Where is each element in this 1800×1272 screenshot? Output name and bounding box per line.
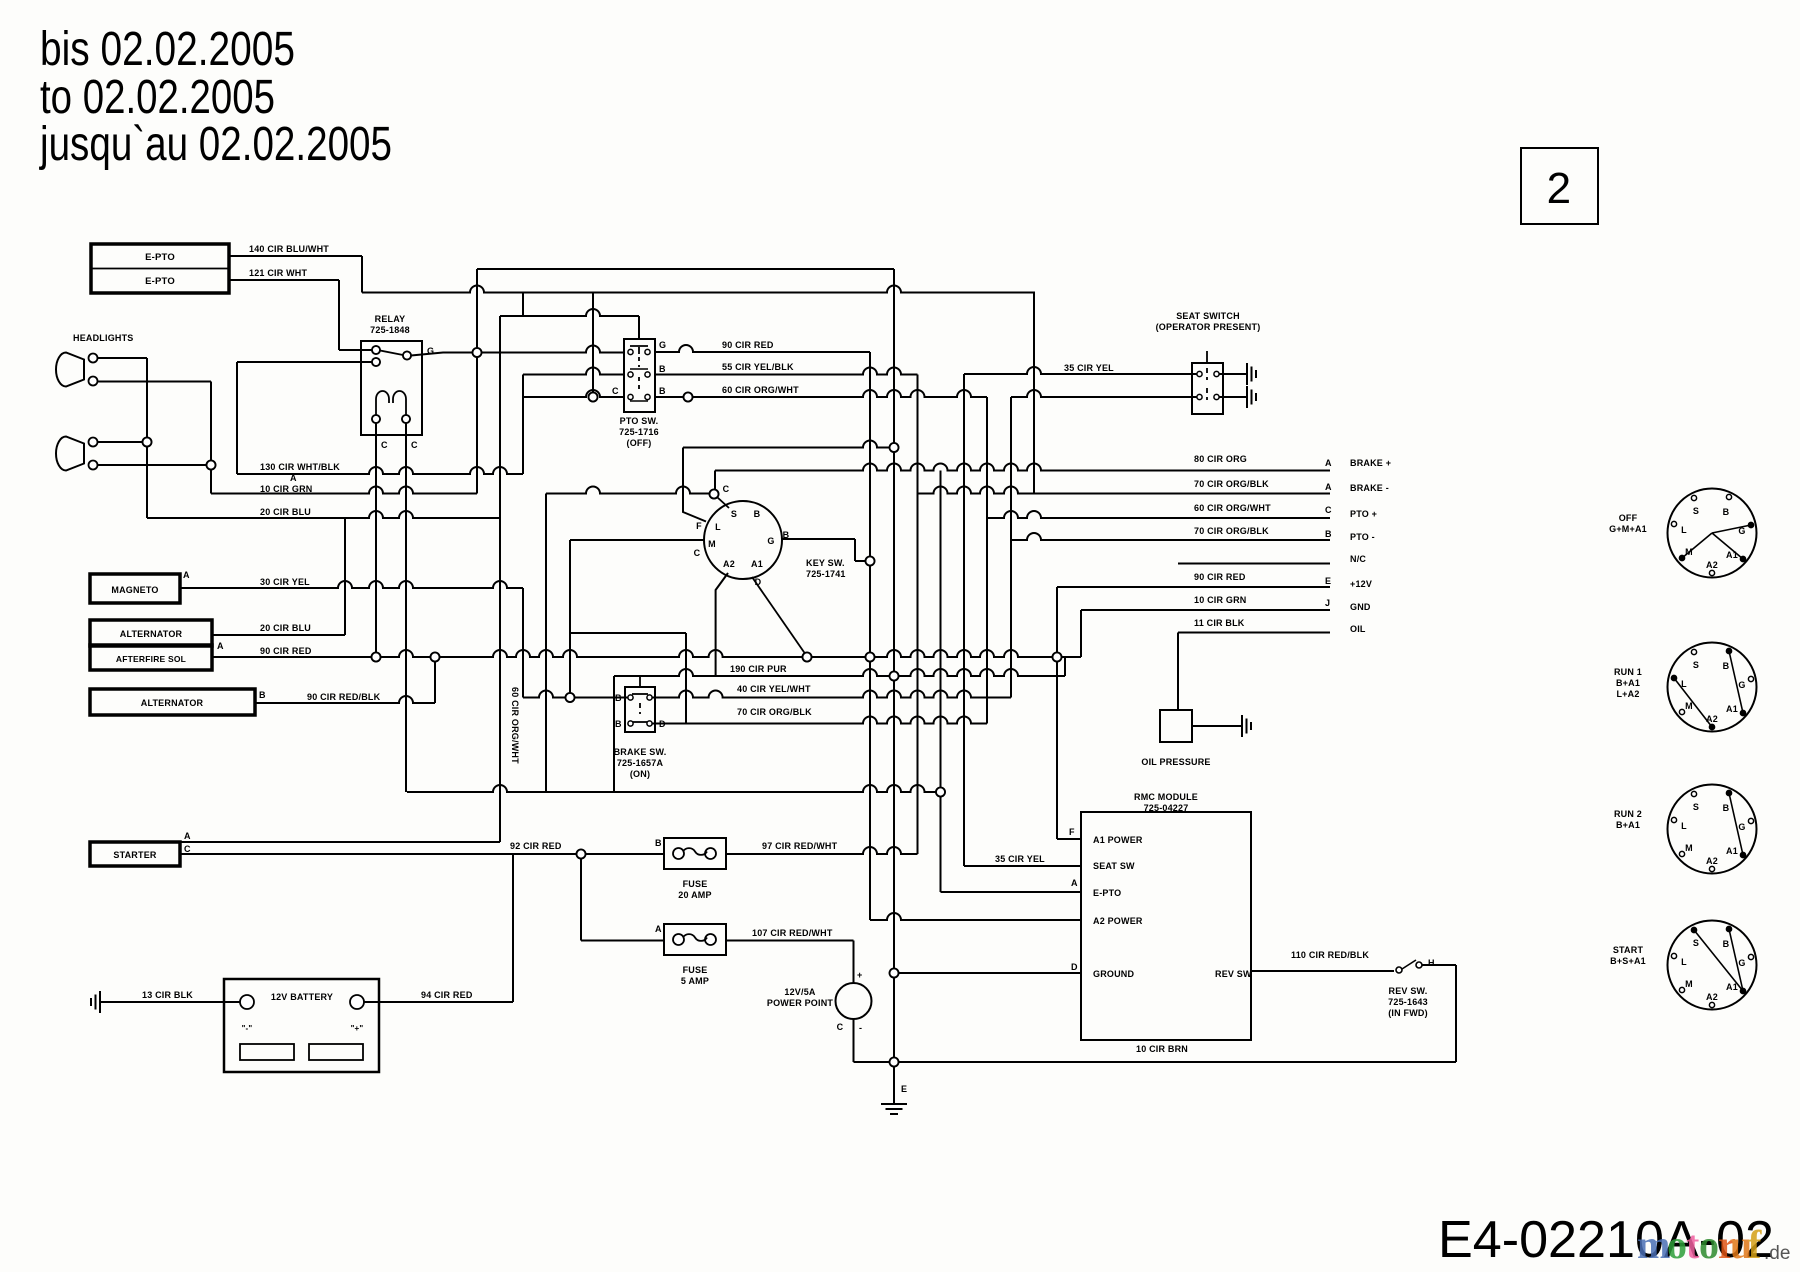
- svg-text:725-1657A: 725-1657A: [617, 758, 664, 768]
- svg-text:20 AMP: 20 AMP: [678, 890, 711, 900]
- svg-text:A1: A1: [1726, 704, 1738, 714]
- svg-text:A1 POWER: A1 POWER: [1093, 835, 1143, 845]
- wire V686: [685, 633, 687, 724]
- node pto C left: [589, 393, 598, 402]
- svg-text:B: B: [259, 690, 266, 700]
- wire 40 CIR YEL/WHT row: [652, 691, 1011, 698]
- svg-text:B: B: [659, 386, 666, 396]
- relay pin 1: [372, 346, 380, 354]
- wire V593: [592, 293, 594, 398]
- wire 121 CIR WHT seg1: [230, 279, 339, 281]
- key switch D lead: [752, 577, 806, 655]
- svg-text:A: A: [1071, 878, 1078, 888]
- node fuse5 tap: [577, 850, 586, 859]
- node row792/V940: [936, 788, 945, 797]
- wire V513: [512, 854, 514, 1002]
- svg-text:START: START: [1613, 945, 1644, 955]
- wire 20 CIR BLU upper: [147, 511, 500, 518]
- wire 107 CIR RED/WHT row: [726, 940, 854, 942]
- wire row 792: [407, 785, 941, 792]
- node key D: [803, 653, 812, 662]
- svg-text:B: B: [655, 838, 662, 848]
- relay contact G: [403, 352, 411, 360]
- svg-text:A: A: [1325, 482, 1332, 492]
- wire E-PTO stub: [941, 891, 1082, 893]
- wire V546: [545, 494, 547, 793]
- wire V211: [210, 382, 212, 494]
- node F/V894: [890, 443, 899, 452]
- wire V435: [434, 657, 436, 703]
- key switch F lead: [683, 448, 706, 522]
- svg-text:L+A2: L+A2: [1616, 689, 1639, 699]
- wire V147 headlight: [146, 358, 148, 518]
- PTO switch 725-1716: [624, 339, 655, 412]
- node V870: [866, 653, 875, 662]
- svg-text:m: m: [1637, 1222, 1670, 1267]
- key switch 725-1741: [704, 501, 782, 579]
- node V1057: [1053, 653, 1062, 662]
- svg-text:REV SW.: REV SW.: [1389, 986, 1428, 996]
- relay pin 2: [372, 358, 380, 366]
- relay coil pin C1: [372, 415, 380, 423]
- wire V1034: [1033, 293, 1035, 494]
- node pto C left: [589, 393, 598, 402]
- svg-text:A2: A2: [1706, 992, 1718, 1002]
- wire V581: [580, 854, 582, 941]
- wire V1178 oil: [1177, 633, 1179, 711]
- svg-text:C: C: [184, 844, 191, 854]
- svg-text:B: B: [1723, 507, 1730, 517]
- wire V477: [476, 269, 478, 494]
- wire row 633: [570, 632, 686, 634]
- svg-text:121 CIR WHT: 121 CIR WHT: [249, 268, 308, 278]
- svg-text:B: B: [754, 509, 761, 519]
- node A2/V894: [890, 672, 899, 681]
- svg-text:SEAT SW: SEAT SW: [1093, 861, 1135, 871]
- node headlight: [143, 438, 152, 447]
- node ground/V894: [890, 969, 899, 978]
- 12V battery: [224, 979, 379, 1072]
- svg-text:S: S: [1693, 506, 1699, 516]
- svg-text:A2: A2: [1706, 560, 1718, 570]
- svg-text:S: S: [731, 509, 737, 519]
- wire V1011: [1010, 397, 1012, 698]
- wire 121 CIR drop: [338, 280, 340, 350]
- wire SEAT SW stub: [964, 865, 1081, 867]
- svg-text:f: f: [1748, 1222, 1762, 1267]
- wire C node drop: [714, 471, 716, 491]
- wire 97 CIR RED/WHT row: [726, 847, 918, 854]
- node key B/V870: [866, 557, 875, 566]
- svg-text:2: 2: [1547, 164, 1572, 213]
- svg-text:40 CIR YEL/WHT: 40 CIR YEL/WHT: [737, 684, 811, 694]
- svg-text:A: A: [183, 570, 190, 580]
- svg-text:10 CIR GRN: 10 CIR GRN: [1194, 595, 1247, 605]
- svg-text:S: S: [1693, 938, 1699, 948]
- wire V639 pto antenna: [638, 316, 640, 340]
- relay contact G: [403, 352, 411, 360]
- wire V1065: [1064, 657, 1066, 676]
- node alt B: [431, 653, 440, 662]
- wire GROUND row: [894, 972, 1081, 974]
- svg-text:OFF: OFF: [1619, 513, 1638, 523]
- key position diagram OFF: [1668, 489, 1757, 578]
- relay coil pin C2: [402, 415, 410, 423]
- svg-text:M: M: [1685, 843, 1693, 853]
- svg-text:(IN FWD): (IN FWD): [1388, 1008, 1428, 1018]
- wire lamp1 top lead: [97, 357, 147, 359]
- wire key M row: [570, 539, 704, 541]
- node relay C1: [372, 653, 381, 662]
- svg-text:jusqu`au 02.02.2005: jusqu`au 02.02.2005: [38, 118, 392, 171]
- svg-text:.de: .de: [1764, 1243, 1790, 1264]
- svg-text:G: G: [1738, 822, 1745, 832]
- svg-text:107 CIR RED/WHT: 107 CIR RED/WHT: [752, 928, 833, 938]
- svg-text:35 CIR YEL: 35 CIR YEL: [995, 854, 1045, 864]
- svg-text:140 CIR BLU/WHT: 140 CIR BLU/WHT: [249, 244, 329, 254]
- wire fuse5 feed: [581, 940, 664, 942]
- wire 30 CIR YEL row: [180, 581, 523, 588]
- svg-text:RELAY: RELAY: [375, 314, 406, 324]
- wire relay G out: [411, 346, 624, 356]
- svg-text:GND: GND: [1350, 602, 1371, 612]
- svg-text:REV SW: REV SW: [1215, 969, 1252, 979]
- wire V345: [344, 518, 346, 635]
- relay pin 1: [372, 346, 380, 354]
- svg-text:94 CIR RED: 94 CIR RED: [421, 990, 473, 1000]
- svg-text:D: D: [1071, 962, 1078, 972]
- key position diagram RUN 1: [1668, 643, 1757, 732]
- svg-text:12V BATTERY: 12V BATTERY: [271, 992, 333, 1002]
- svg-text:C: C: [612, 386, 619, 396]
- svg-text:190 CIR PUR: 190 CIR PUR: [730, 664, 787, 674]
- wire row 518 PTO+: [987, 511, 1330, 518]
- oil pressure sender: [1160, 710, 1192, 742]
- svg-text:B: B: [1723, 661, 1730, 671]
- wire A2 POWER row: [870, 913, 1081, 920]
- svg-text:C: C: [381, 440, 388, 450]
- svg-text:KEY SW.: KEY SW.: [806, 558, 845, 568]
- svg-text:B: B: [1325, 529, 1332, 539]
- wire key F row: [683, 441, 894, 448]
- node key B/V870: [866, 557, 875, 566]
- wire 90 CIR RED pto G row: [654, 345, 870, 352]
- wire V964 35 CIR YEL: [963, 374, 965, 866]
- wire 60 CIR ORG/WHT vertical: [499, 316, 501, 842]
- svg-text:GROUND: GROUND: [1093, 969, 1134, 979]
- svg-text:90 CIR RED/BLK: 90 CIR RED/BLK: [307, 692, 381, 702]
- wire seat sw bottom row: [1011, 390, 1197, 397]
- svg-text:C: C: [723, 484, 730, 494]
- wire V523 lower: [522, 588, 524, 698]
- E-PTO connector box: [91, 244, 229, 293]
- seat switch grounds: [1219, 373, 1247, 375]
- svg-text:(ON): (ON): [630, 769, 650, 779]
- wire relay pin2 lead: [237, 361, 372, 363]
- svg-text:70 CIR ORG/BLK: 70 CIR ORG/BLK: [1194, 479, 1269, 489]
- svg-text:o: o: [1667, 1222, 1687, 1267]
- starter box: [90, 842, 180, 866]
- svg-text:OIL PRESSURE: OIL PRESSURE: [1141, 757, 1210, 767]
- svg-text:90 CIR RED: 90 CIR RED: [722, 340, 774, 350]
- svg-text:60 CIR ORG/WHT: 60 CIR ORG/WHT: [510, 687, 520, 764]
- wire V570: [569, 540, 571, 698]
- svg-text:L: L: [1681, 525, 1687, 535]
- node pto B right: [684, 393, 693, 402]
- battery negative ground: [100, 1001, 240, 1003]
- svg-text:92 CIR RED: 92 CIR RED: [510, 841, 562, 851]
- key position diagram START: [1668, 921, 1757, 1010]
- node relay out / V477: [473, 348, 482, 357]
- svg-text:RUN 2: RUN 2: [1614, 809, 1642, 819]
- svg-text:C: C: [411, 440, 418, 450]
- svg-text:-: -: [859, 1023, 862, 1033]
- svg-text:G+M+A1: G+M+A1: [1609, 524, 1647, 534]
- svg-text:B+A1: B+A1: [1616, 820, 1640, 830]
- wire lamp2 top lead: [97, 441, 147, 443]
- node V870: [866, 653, 875, 662]
- wire A1 POWER stub: [1057, 838, 1081, 840]
- svg-text:PTO +: PTO +: [1350, 509, 1377, 519]
- svg-text:A2: A2: [1706, 856, 1718, 866]
- svg-text:B+A1: B+A1: [1616, 678, 1640, 688]
- svg-text:11 CIR BLK: 11 CIR BLK: [1194, 618, 1245, 628]
- svg-text:S: S: [1693, 660, 1699, 670]
- node E ground: [890, 1058, 899, 1067]
- svg-text:B+S+A1: B+S+A1: [1610, 956, 1646, 966]
- wire 70 CIR ORG/BLK row: [652, 717, 987, 724]
- svg-text:E-PTO: E-PTO: [1093, 888, 1121, 898]
- fuse 20 AMP: [664, 838, 726, 869]
- node row792/V940: [936, 788, 945, 797]
- wire 20 CIR BLU lower: [212, 634, 345, 636]
- svg-text:F: F: [1069, 827, 1075, 837]
- wire 35 CIR YEL row: [964, 367, 1197, 374]
- svg-text:5 AMP: 5 AMP: [681, 976, 709, 986]
- svg-text:G: G: [767, 536, 774, 546]
- brake switch 725-1657A: [625, 687, 655, 732]
- node ground/V894: [890, 969, 899, 978]
- svg-text:12V/5A: 12V/5A: [784, 987, 816, 997]
- svg-text:M: M: [1685, 979, 1693, 989]
- node A2/V894: [890, 672, 899, 681]
- node key D: [803, 653, 812, 662]
- wire V523 upper: [522, 293, 524, 317]
- svg-text:ALTERNATOR: ALTERNATOR: [120, 629, 183, 639]
- svg-text:SEAT SWITCH: SEAT SWITCH: [1176, 311, 1240, 321]
- svg-text:M: M: [1685, 701, 1693, 711]
- svg-text:"-": "-": [242, 1024, 253, 1033]
- svg-text:A2: A2: [723, 559, 735, 569]
- wire GND row: [1081, 609, 1330, 611]
- wire 10 CIR GRN to key C: [546, 487, 714, 494]
- headlight lamp 1: [56, 353, 84, 387]
- svg-text:HEADLIGHTS: HEADLIGHTS: [73, 333, 134, 343]
- wire top bus: [477, 268, 894, 270]
- svg-text:RUN 1: RUN 1: [1614, 667, 1642, 677]
- wire V237: [236, 362, 238, 474]
- svg-text:110 CIR RED/BLK: 110 CIR RED/BLK: [1291, 950, 1369, 960]
- svg-text:A: A: [1325, 458, 1332, 468]
- wire V917: [917, 375, 919, 855]
- svg-text:10 CIR BRN: 10 CIR BRN: [1136, 1044, 1188, 1054]
- svg-text:(OFF): (OFF): [627, 438, 652, 448]
- svg-text:B: B: [659, 364, 666, 374]
- wire bridge row 316: [500, 309, 639, 316]
- wire V523 mid: [522, 375, 524, 475]
- node E ground: [890, 1058, 899, 1067]
- wire row 470 BRAKE+: [715, 464, 1330, 471]
- svg-text:E-PTO: E-PTO: [145, 252, 175, 263]
- relay coil pin C1: [372, 415, 380, 423]
- svg-text:F: F: [696, 521, 702, 531]
- svg-text:A1: A1: [1726, 846, 1738, 856]
- svg-text:FUSE: FUSE: [683, 879, 708, 889]
- wire key B row: [782, 538, 855, 540]
- svg-text:L: L: [1681, 957, 1687, 967]
- svg-text:13 CIR BLK: 13 CIR BLK: [142, 990, 193, 1000]
- svg-text:C: C: [694, 548, 701, 558]
- wire 140 CIR drop: [361, 256, 363, 293]
- key position diagram RUN 2: [1668, 785, 1757, 874]
- node headlight: [143, 438, 152, 447]
- relay switch arm: [380, 351, 403, 356]
- svg-text:AFTERFIRE SOL: AFTERFIRE SOL: [116, 654, 186, 664]
- wire row 540 PTO-: [1011, 533, 1330, 540]
- svg-text:A: A: [655, 924, 662, 934]
- svg-text:70 CIR ORG/BLK: 70 CIR ORG/BLK: [1194, 526, 1269, 536]
- node relay C1: [372, 653, 381, 662]
- node F/V894: [890, 443, 899, 452]
- svg-text:G: G: [1738, 680, 1745, 690]
- svg-text:POWER POINT: POWER POINT: [767, 998, 834, 1008]
- wire V376 relay C1: [375, 421, 377, 657]
- wire B row jog: [855, 560, 870, 562]
- node V570 end: [566, 693, 575, 702]
- svg-text:80 CIR ORG: 80 CIR ORG: [1194, 454, 1247, 464]
- svg-text:OIL: OIL: [1350, 624, 1366, 634]
- wire V894 main ground: [893, 269, 895, 1062]
- svg-text:H: H: [1428, 958, 1435, 968]
- afterfire solenoid box: [90, 645, 212, 670]
- fuse 5 AMP: [664, 924, 726, 955]
- svg-text:97 CIR RED/WHT: 97 CIR RED/WHT: [762, 841, 838, 851]
- svg-text:BRAKE +: BRAKE +: [1350, 458, 1391, 468]
- svg-text:B: B: [1723, 939, 1730, 949]
- svg-text:C: C: [1325, 505, 1332, 515]
- node lamp bottoms: [207, 461, 216, 470]
- svg-text:B: B: [615, 719, 622, 729]
- svg-text:MAGNETO: MAGNETO: [111, 585, 158, 595]
- svg-text:L: L: [715, 522, 721, 532]
- wire lamp2 bottom lead: [97, 464, 211, 466]
- wire 140 CIR BLU/WHT seg1: [230, 255, 362, 257]
- svg-text:o: o: [1699, 1222, 1719, 1267]
- svg-text:G: G: [659, 340, 666, 350]
- wire V853 to power point: [853, 941, 855, 984]
- wire V614: [613, 676, 615, 792]
- svg-text:60 CIR ORG/WHT: 60 CIR ORG/WHT: [722, 385, 799, 395]
- wire 60 CIR ORG/WHT left: [523, 390, 624, 397]
- node lamp bottoms: [207, 461, 216, 470]
- svg-text:L: L: [1681, 821, 1687, 831]
- wire 92 CIR RED row: [180, 853, 664, 855]
- svg-text:"+": "+": [351, 1024, 364, 1033]
- svg-text:E: E: [901, 1084, 907, 1094]
- wire V406 relay C2: [405, 421, 407, 792]
- svg-text:B: B: [1723, 803, 1730, 813]
- relay coil pin C2: [402, 415, 410, 423]
- alternator box 2: [90, 689, 255, 715]
- svg-text:G: G: [1738, 958, 1745, 968]
- svg-text:BRAKE SW.: BRAKE SW.: [614, 747, 667, 757]
- alternator box 1: [90, 620, 212, 646]
- wire starter A row: [180, 841, 500, 843]
- svg-text:PTO SW.: PTO SW.: [620, 416, 659, 426]
- node key C: [710, 490, 719, 499]
- svg-text:725-1848: 725-1848: [370, 325, 410, 335]
- svg-text:FUSE: FUSE: [683, 965, 708, 975]
- svg-text:60 CIR ORG/WHT: 60 CIR ORG/WHT: [1194, 503, 1271, 513]
- wire OIL row: [1178, 632, 1330, 634]
- wire power point neg drop: [853, 1019, 855, 1062]
- wire 60 CIR ORG/WHT row: [654, 390, 987, 397]
- node relay out / V477: [473, 348, 482, 357]
- wire 94 CIR RED row: [364, 1001, 513, 1003]
- svg-text:A: A: [184, 831, 191, 841]
- svg-text:90 CIR RED: 90 CIR RED: [1194, 572, 1246, 582]
- node alt B: [431, 653, 440, 662]
- reverse switch 725-1643: [1251, 970, 1394, 972]
- svg-text:t: t: [1686, 1222, 1700, 1267]
- svg-text:A2 POWER: A2 POWER: [1093, 916, 1143, 926]
- wire V1456 rev: [1455, 965, 1457, 1062]
- wire 90 CIR RED/BLK row: [255, 696, 435, 703]
- svg-text:130 CIR WHT/BLK: 130 CIR WHT/BLK: [260, 462, 340, 472]
- svg-text:ALTERNATOR: ALTERNATOR: [141, 698, 204, 708]
- wire V1081: [1080, 610, 1082, 657]
- wire ground drop: [893, 1062, 895, 1104]
- headlight lamp 2: [56, 437, 84, 471]
- wire V1057: [1056, 587, 1058, 839]
- wire N/C row: [1178, 563, 1330, 565]
- relay coil: [376, 391, 389, 419]
- svg-text:A1: A1: [751, 559, 763, 569]
- watermark motoruf.de: [1637, 1222, 1762, 1267]
- wire 10 CIR BRN row: [854, 1061, 1457, 1063]
- svg-text:N/C: N/C: [1350, 554, 1366, 564]
- svg-text:E-PTO: E-PTO: [145, 276, 175, 287]
- svg-text:+12V: +12V: [1350, 579, 1372, 589]
- svg-text:55 CIR YEL/BLK: 55 CIR YEL/BLK: [722, 362, 794, 372]
- wire +12V row: [1057, 586, 1330, 588]
- svg-text:PTO -: PTO -: [1350, 532, 1375, 542]
- page number box 2: [1521, 148, 1598, 224]
- wire 90 CIR RED row: [212, 650, 1081, 657]
- svg-text:70 CIR ORG/BLK: 70 CIR ORG/BLK: [737, 707, 812, 717]
- svg-text:20 CIR BLU: 20 CIR BLU: [260, 507, 311, 517]
- svg-text:S: S: [1693, 802, 1699, 812]
- svg-text:30 CIR YEL: 30 CIR YEL: [260, 577, 310, 587]
- wire V870: [869, 352, 871, 920]
- wire V855: [854, 539, 856, 561]
- svg-text:J: J: [1325, 598, 1330, 608]
- wire 55 CIR YEL/BLK row: [654, 368, 918, 375]
- wire 190 CIR PUR row: [614, 669, 1065, 676]
- node V570 end: [566, 693, 575, 702]
- wire relay pin1 feed: [339, 349, 372, 351]
- wire V940: [940, 471, 942, 893]
